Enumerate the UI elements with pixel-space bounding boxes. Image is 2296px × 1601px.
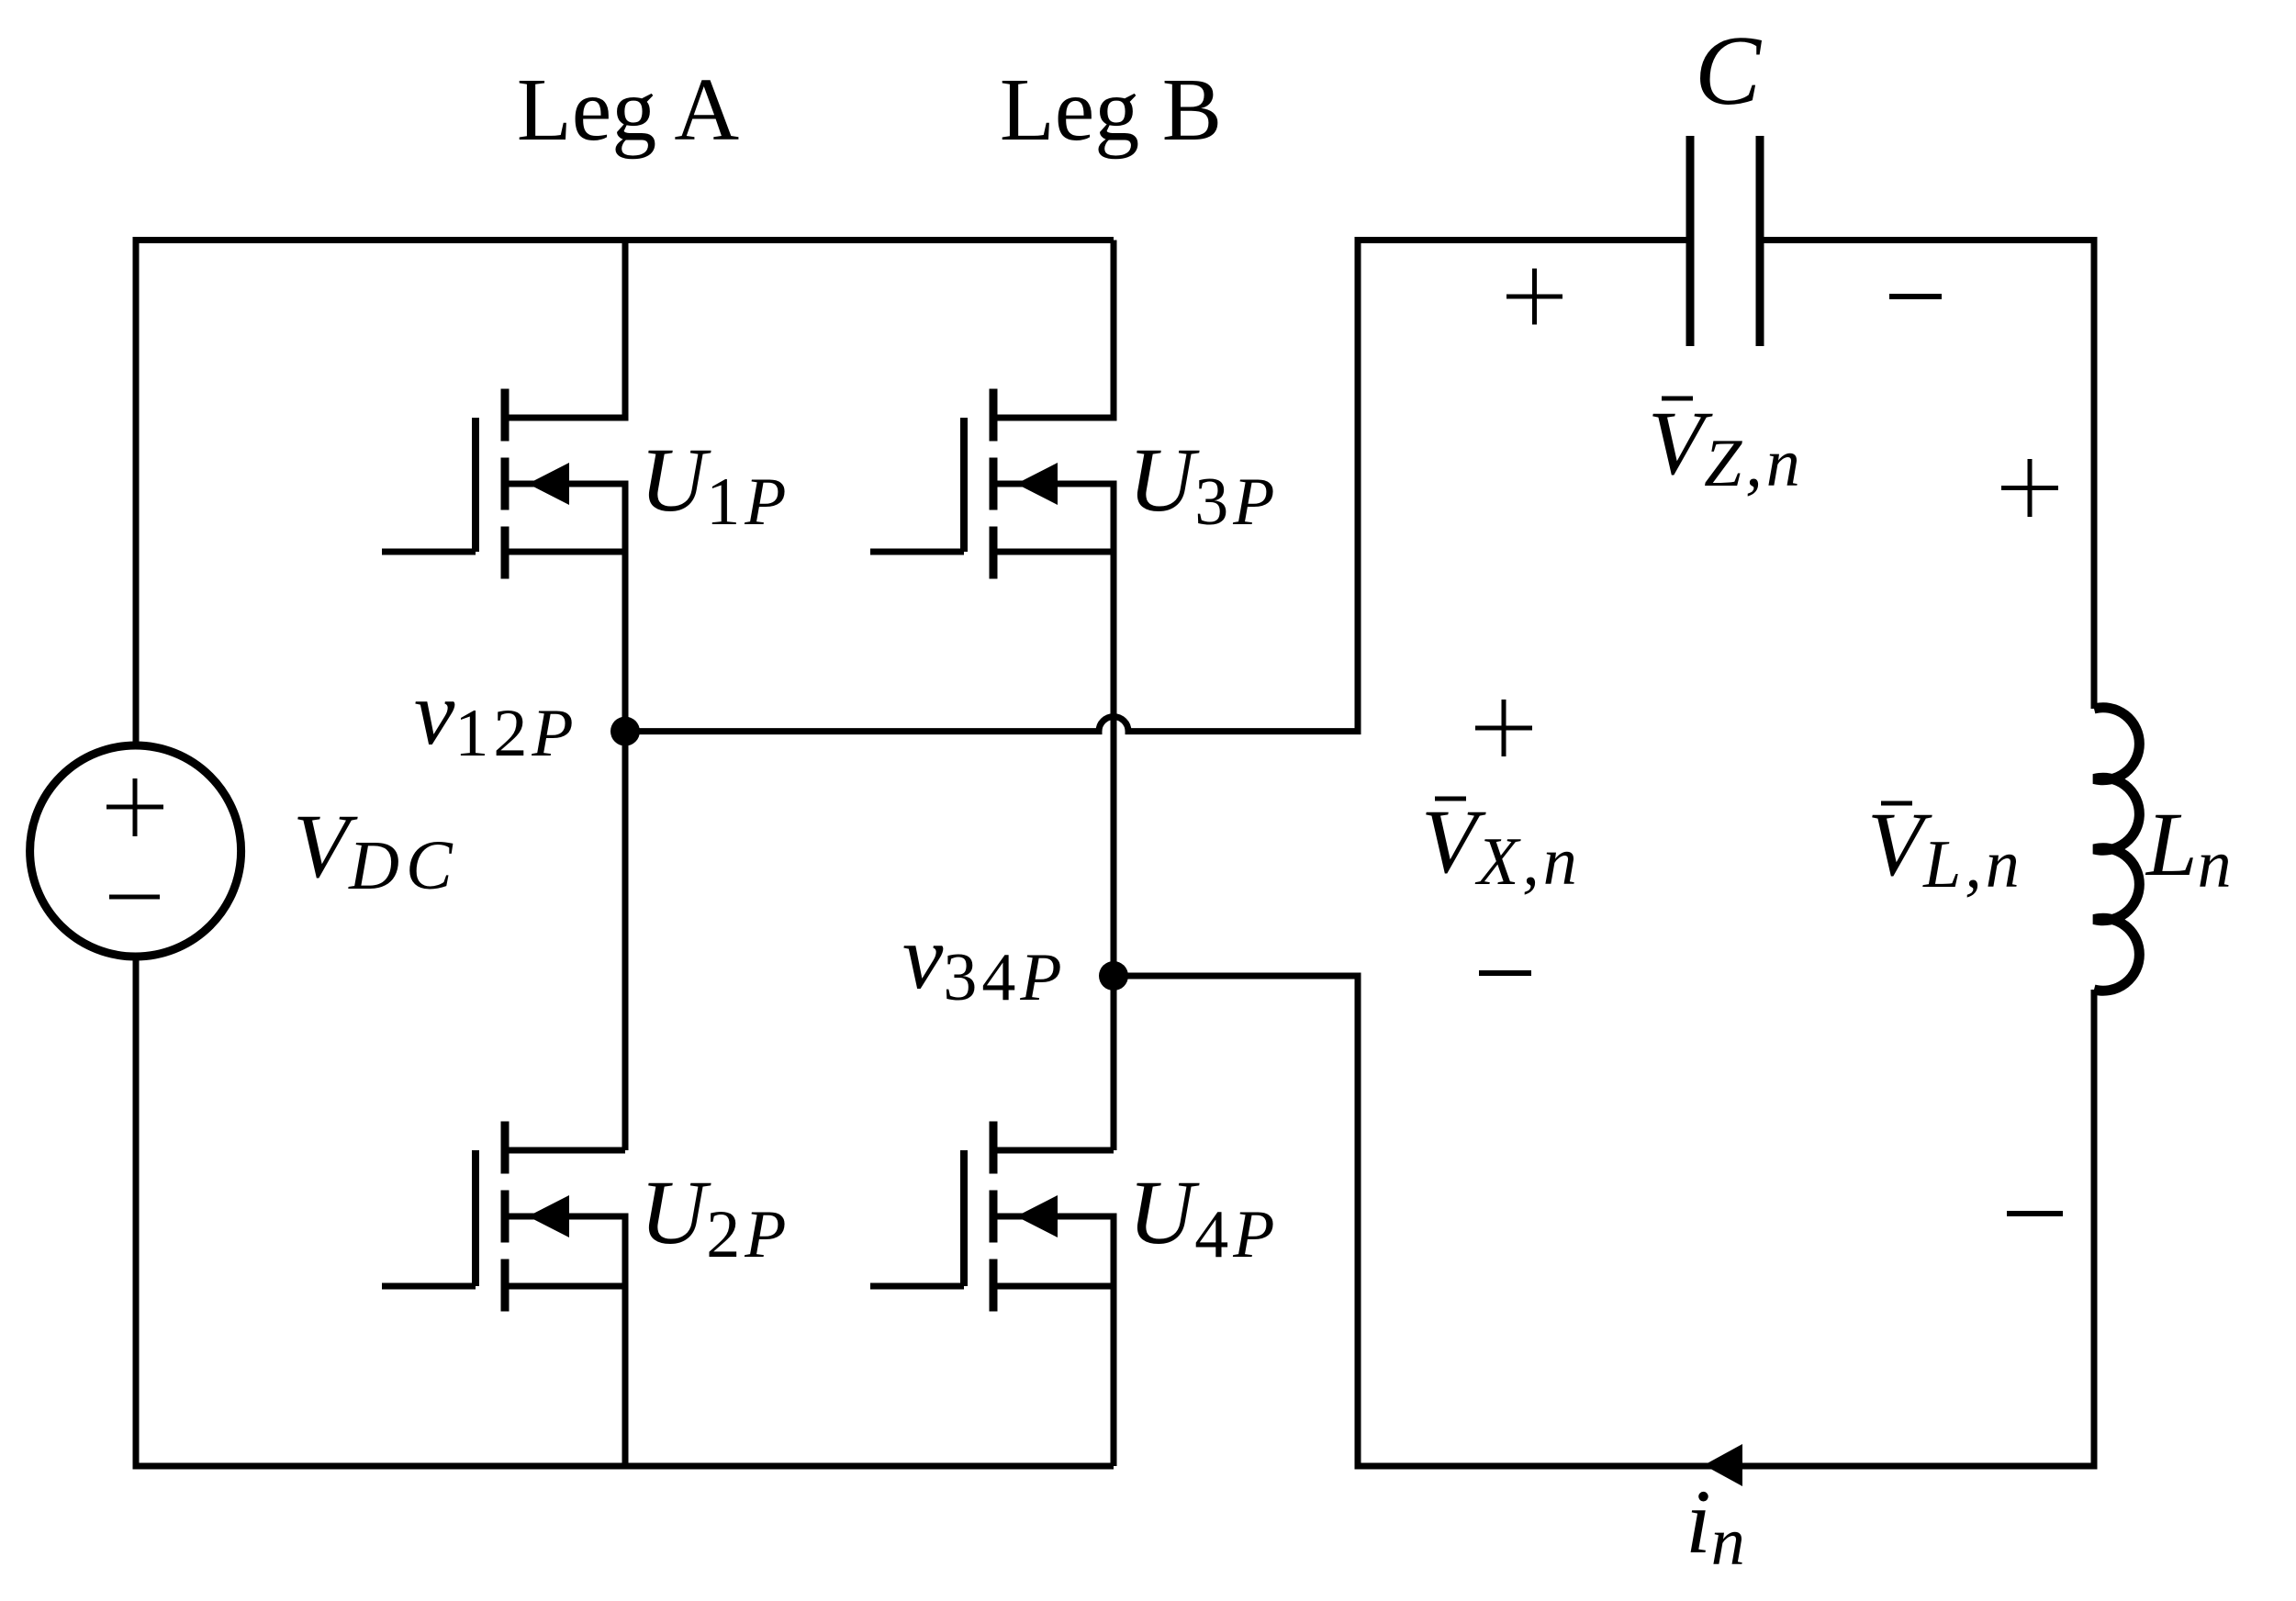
- wire leg B drain U3P: [993, 241, 1114, 419]
- wire U2P source: [505, 1283, 625, 1290]
- node v34P dot: [1099, 961, 1128, 991]
- wire leg B middle: [993, 484, 1114, 1150]
- wire leg A drain U1P: [505, 241, 625, 419]
- mosfet U3P channel dashes: [990, 389, 998, 579]
- current arrow i_n: [1704, 1444, 1742, 1486]
- mosfet U1P gate bar: [472, 418, 479, 552]
- label minus capacitor right: [1889, 294, 1942, 299]
- label VXn bar: [1435, 797, 1466, 801]
- source V_DC minus: [109, 895, 160, 900]
- svg-text:C: C: [1695, 17, 1763, 126]
- wire leg B lower: [993, 1216, 1114, 1466]
- node v12P dot: [610, 717, 640, 746]
- inductor Ln coils: [2094, 708, 2139, 991]
- mosfet U1P arrow: [528, 463, 569, 505]
- mosfet U3P gate lead: [870, 549, 964, 555]
- svg-text:Leg A: Leg A: [517, 61, 739, 160]
- label plus capacitor left: [1506, 269, 1562, 325]
- wire U4P drain: [993, 1148, 1114, 1154]
- mosfet U4P gate bar: [960, 1150, 968, 1286]
- mosfet U3P gate bar: [960, 418, 968, 552]
- label minus VL: [2007, 1211, 2063, 1216]
- wire v34P to bottom right rail: [1114, 976, 2094, 1466]
- mosfet U2P arrow: [528, 1195, 569, 1237]
- label VZn bar: [1662, 397, 1693, 401]
- svg-text:Leg B: Leg B: [1000, 61, 1222, 160]
- wire U2P drain: [505, 1148, 625, 1154]
- wire U1P source: [505, 549, 625, 555]
- label plus VL: [2001, 459, 2058, 517]
- source V_DC plus: [106, 778, 163, 836]
- wire v12P to cap with hop over leg B: [625, 241, 1690, 732]
- mosfet U4P channel dashes: [990, 1122, 998, 1312]
- mosfet U4P arrow: [1016, 1195, 1058, 1237]
- source V_DC circle: [30, 745, 241, 957]
- wire cap right to inductor top: [1760, 241, 2094, 710]
- wire left side bottom: [136, 957, 1114, 1466]
- wire leg A middle: [505, 484, 625, 1150]
- label plus VX: [1475, 700, 1532, 756]
- wire U3P source: [993, 549, 1114, 555]
- mosfet U2P channel dashes: [501, 1122, 510, 1312]
- wire U4P source: [993, 1283, 1114, 1290]
- mosfet U4P gate lead: [870, 1283, 964, 1290]
- mosfet U2P gate bar: [472, 1150, 479, 1286]
- wire left side top: [136, 241, 1114, 746]
- wire leg A lower: [505, 1216, 625, 1466]
- mosfet U3P arrow: [1016, 463, 1058, 505]
- mosfet U2P gate lead: [382, 1283, 476, 1290]
- label VLn bar: [1881, 801, 1912, 806]
- capacitor C plates: [1690, 136, 1760, 346]
- label minus VX: [1479, 970, 1531, 976]
- mosfet U1P channel dashes: [501, 389, 510, 579]
- mosfet U1P gate lead: [382, 549, 476, 555]
